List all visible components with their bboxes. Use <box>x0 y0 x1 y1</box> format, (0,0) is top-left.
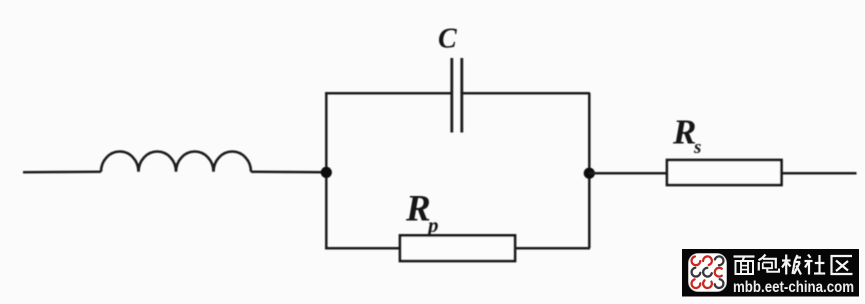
watermark: logo arcs (3x3 C pattern) <box>692 256 724 288</box>
svg-text:C: C <box>438 24 457 55</box>
svg-text:p: p <box>426 213 439 237</box>
node A (junction dot) <box>321 167 332 178</box>
watermark: logo tile (white rounded square) <box>689 254 727 292</box>
wire: left vertical of parallel section <box>325 93 328 248</box>
wire: top branch, right segment <box>463 92 591 95</box>
svg-text:s: s <box>693 137 701 158</box>
glyph 社 <box>805 255 826 275</box>
wire: bottom branch, left segment <box>325 247 401 250</box>
svg-text:R: R <box>405 189 431 230</box>
glyph 面 <box>734 257 755 275</box>
resistor Rp (body) <box>400 235 515 261</box>
wire: left lead <box>23 171 101 174</box>
node B (junction dot) <box>584 168 595 179</box>
watermark: black banner <box>682 249 859 297</box>
glyph 包 <box>759 255 780 272</box>
label Rp <box>405 189 439 238</box>
wire: bottom branch, right segment <box>515 247 591 250</box>
wire: right lead <box>782 172 857 175</box>
wire: right vertical of parallel section <box>588 93 591 248</box>
resistor Rs (body) <box>667 160 782 185</box>
wire: node B to Rs <box>589 172 667 175</box>
wire: inductor to node A <box>251 171 326 174</box>
watermark: site name 面包板社区 (hand-drawn strokes) <box>734 255 853 275</box>
svg-text:mbb.eet-china.com: mbb.eet-china.com <box>733 279 854 296</box>
svg-text:R: R <box>672 113 696 152</box>
label Rs <box>672 113 701 159</box>
glyph 区 <box>832 256 853 274</box>
glyph 板 <box>782 255 801 275</box>
capacitor C (plates) <box>452 58 462 133</box>
wire: top branch, left segment <box>325 92 451 95</box>
inductor L1 <box>101 152 251 172</box>
